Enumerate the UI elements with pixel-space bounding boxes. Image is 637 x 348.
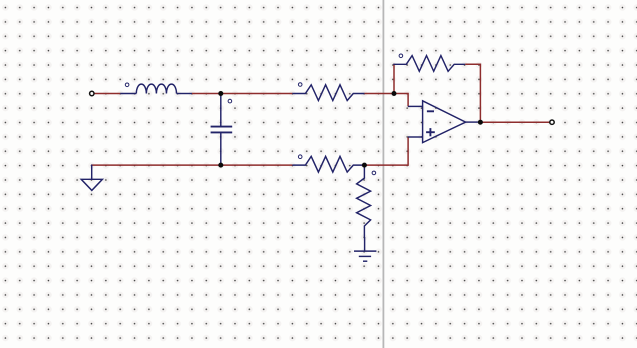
wire L1 to node A and R1 [192,93,293,95]
inductor L1 [120,84,192,93]
page border line [382,0,384,348]
output node junction [478,120,483,125]
wire input terminal to L1 [94,93,120,95]
wire R4 to output node [465,64,480,122]
wire node C to non-inverting input [364,137,408,165]
U1 minus sign [427,110,434,112]
wire R1 to node B [364,93,394,95]
output terminal [550,120,554,124]
capacitor C1 [211,94,233,166]
node C junction [362,163,367,168]
marker R2 [298,155,302,159]
node B junction [392,91,397,96]
marker C1 [228,99,232,103]
wire node B to inverting input [394,94,408,107]
ground earth symbol left [81,165,102,191]
marker R1 [298,83,302,87]
marker L1 [125,83,129,87]
resistor R2 [292,156,364,172]
resistor R4 [393,56,465,72]
ground symbol right [354,237,376,261]
input terminal [90,91,94,95]
resistor R1 [292,85,364,101]
marker R3 [372,171,376,175]
node A junction [218,91,223,96]
op-amp U1 [408,101,481,143]
wire output node to output terminal [480,121,549,123]
marker R4 [399,54,403,58]
resistor R3 [357,165,371,237]
U1 plus sign [426,128,435,136]
node D junction [218,163,223,168]
wire node B up to R4 feedback [393,64,395,94]
wire ground rail to R2 [91,164,292,166]
